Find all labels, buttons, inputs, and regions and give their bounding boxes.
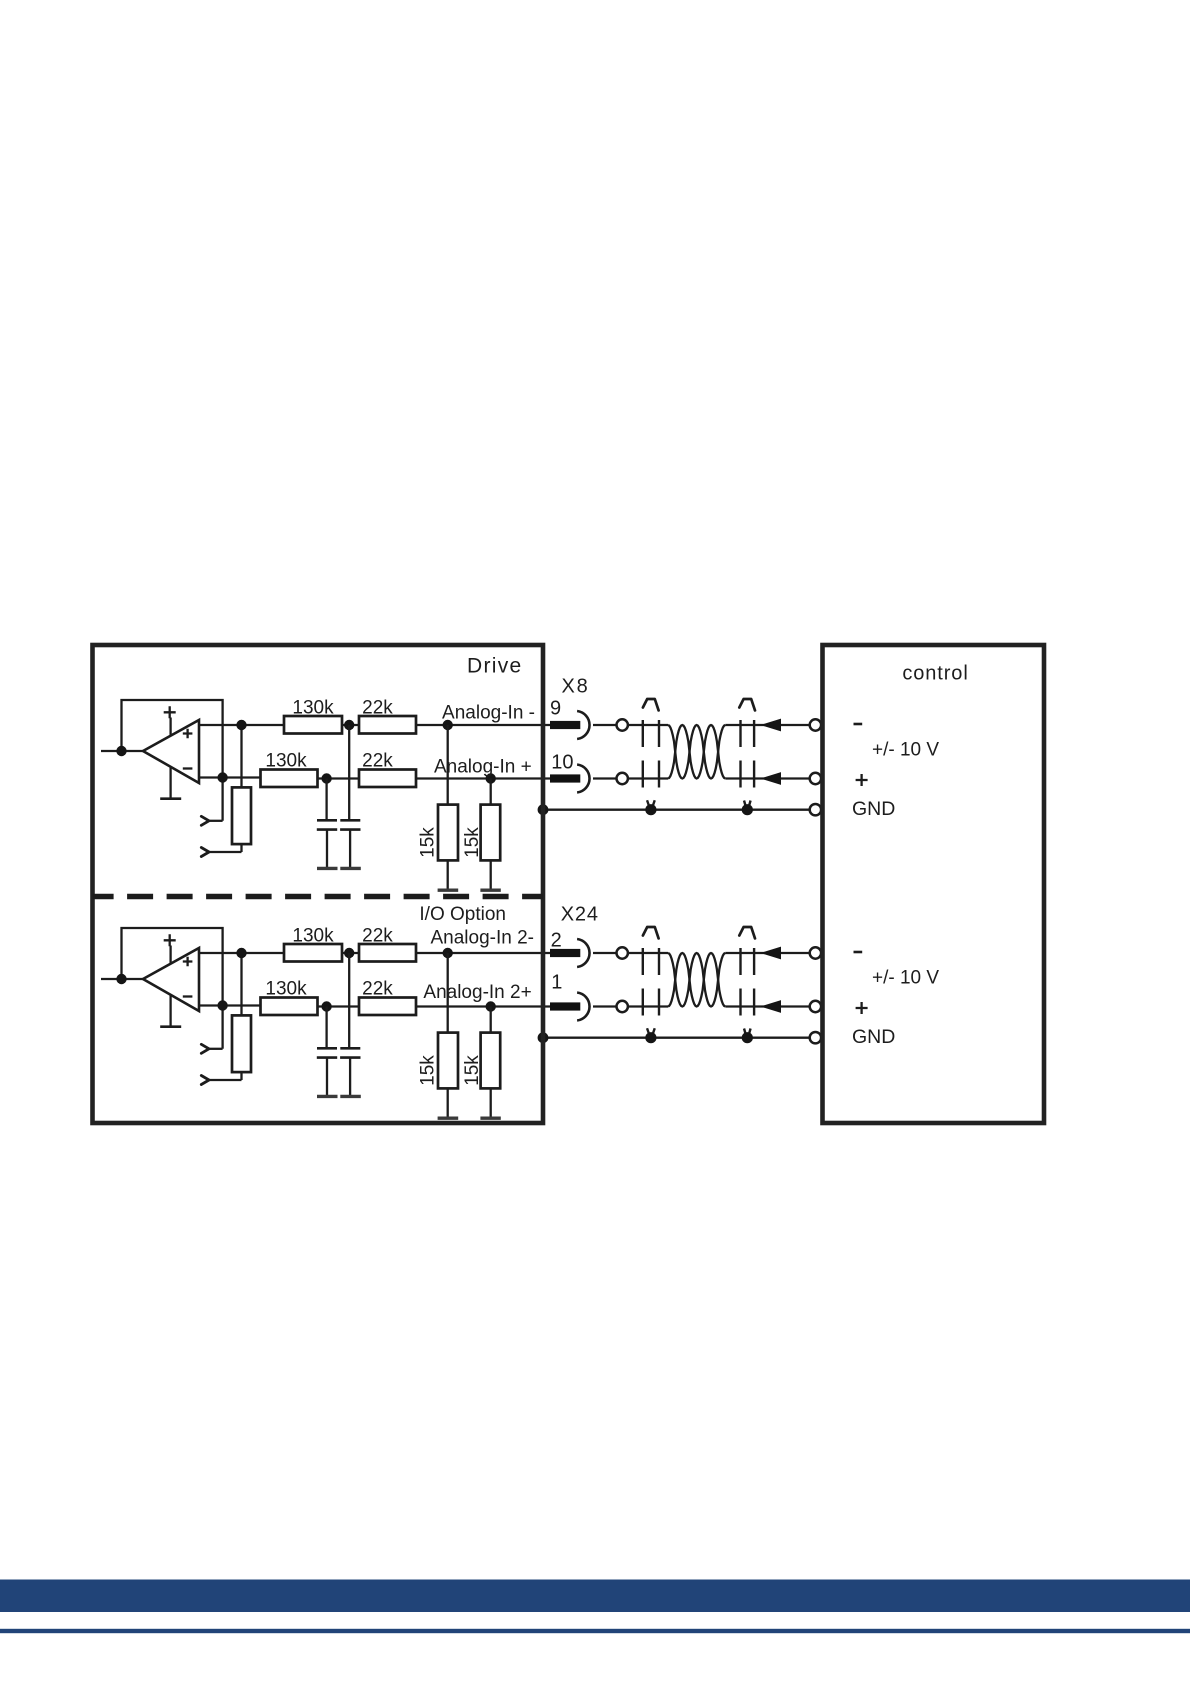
svg-text:22k: 22k [362, 750, 393, 771]
svg-text:130k: 130k [265, 978, 307, 999]
svg-text:130k: 130k [292, 926, 334, 947]
svg-text:Analog-In -: Analog-In - [442, 703, 535, 724]
svg-text:10: 10 [551, 751, 573, 773]
svg-text:15k: 15k [462, 1055, 483, 1086]
svg-text:Analog-In +: Analog-In + [434, 757, 532, 778]
svg-text:130k: 130k [292, 698, 334, 719]
svg-text:9: 9 [550, 698, 561, 720]
svg-text:X8: X8 [561, 675, 589, 697]
svg-text:1: 1 [551, 971, 562, 993]
svg-text:GND: GND [852, 1026, 895, 1048]
svg-text:15k: 15k [418, 827, 439, 858]
svg-text:+/- 10 V: +/- 10 V [872, 968, 939, 989]
svg-text:15k: 15k [462, 827, 483, 858]
svg-text:I/O Option: I/O Option [419, 904, 506, 925]
svg-text:X24: X24 [561, 903, 599, 925]
svg-text:control: control [902, 663, 968, 685]
svg-text:22k: 22k [362, 926, 393, 947]
svg-text:GND: GND [852, 798, 895, 820]
svg-text:Analog-In 2-: Analog-In 2- [430, 927, 534, 948]
svg-text:22k: 22k [362, 698, 393, 719]
svg-text:130k: 130k [265, 750, 307, 771]
svg-text:+/- 10 V: +/- 10 V [872, 740, 939, 761]
svg-text:2: 2 [551, 929, 562, 951]
svg-text:Analog-In 2+: Analog-In 2+ [423, 982, 531, 1003]
svg-text:22k: 22k [362, 978, 393, 999]
svg-text:Drive: Drive [467, 655, 523, 678]
svg-text:15k: 15k [418, 1055, 439, 1086]
